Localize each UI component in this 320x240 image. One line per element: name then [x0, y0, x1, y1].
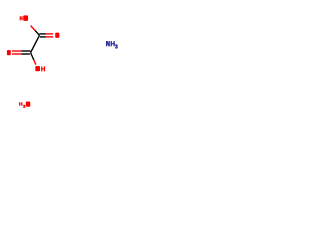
atom label H of top HO — [20, 16, 23, 20]
bond C2-O4, red half near O — [34, 60, 36, 65]
atom O1 right carbonyl oxygen (solid blob) — [55, 33, 59, 38]
bond O3-C1, black half near C1 — [35, 30, 40, 35]
atom O2 left carbonyl oxygen (solid blob) — [7, 50, 11, 55]
svg-text:3: 3 — [115, 44, 117, 50]
bond C2=O2 double bond upper line, red half — [12, 50, 21, 52]
bond C1-C2 carbon-carbon single bond — [31, 35, 40, 52]
bond C1=O1 double bond lower line, black half — [40, 36, 46, 38]
ammonia molecule label H — [111, 41, 115, 46]
background — [0, 0, 130, 130]
water molecule label O (solid blob) — [26, 102, 31, 107]
atom label H of bottom OH — [41, 66, 45, 71]
bond C1=O1 double bond upper line, black half — [39, 33, 46, 35]
bond C2=O2 double bond lower line, red half — [12, 53, 21, 55]
bond C1=O1 double bond upper line, red half — [46, 33, 53, 35]
bond C2=O2 double bond upper line, black half — [21, 50, 30, 52]
bond O3-C1 (hydroxyl to top carbon), red half near O — [31, 26, 35, 31]
bond C1=O1 double bond lower line, red half — [46, 36, 53, 38]
atom label O of top HO (solid blob) — [23, 15, 28, 21]
ammonia molecule label N — [106, 41, 110, 46]
bond C2=O2 double bond lower line, black half — [21, 53, 30, 55]
water molecule label H — [19, 102, 22, 106]
atom label O of bottom OH (solid blob) — [35, 66, 40, 71]
bond C2-O4 (bottom carbon to hydroxyl), black half near C2 — [31, 53, 34, 60]
